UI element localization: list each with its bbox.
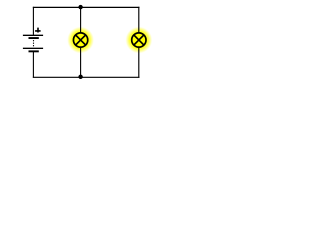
lamp L1 glow (67, 27, 94, 54)
wire left lower (battery - terminal to bottom-left corner) (32, 52, 34, 78)
wire right (through lamp L2) (138, 7, 140, 78)
battery positive plate (cell 2) (23, 48, 43, 49)
battery positive plate (cell 1) (23, 35, 43, 36)
lamp L1 (73, 33, 87, 47)
lamp L2 (132, 33, 146, 47)
battery plus label (35, 28, 41, 33)
wire top (33, 6, 140, 8)
wire left upper (battery + terminal to top-left corner) (32, 7, 34, 35)
lamp L2 glow (125, 27, 152, 54)
battery negative plate (cell 1) (29, 37, 39, 39)
battery B1 (23, 28, 43, 53)
battery negative plate (cell 2) (29, 50, 39, 52)
junction node bottom (78, 75, 82, 79)
wire middle branch (through lamp L1) (80, 7, 82, 78)
wire bottom (33, 76, 140, 78)
battery cell separator dashes (33, 40, 34, 41)
junction node top (78, 5, 82, 9)
